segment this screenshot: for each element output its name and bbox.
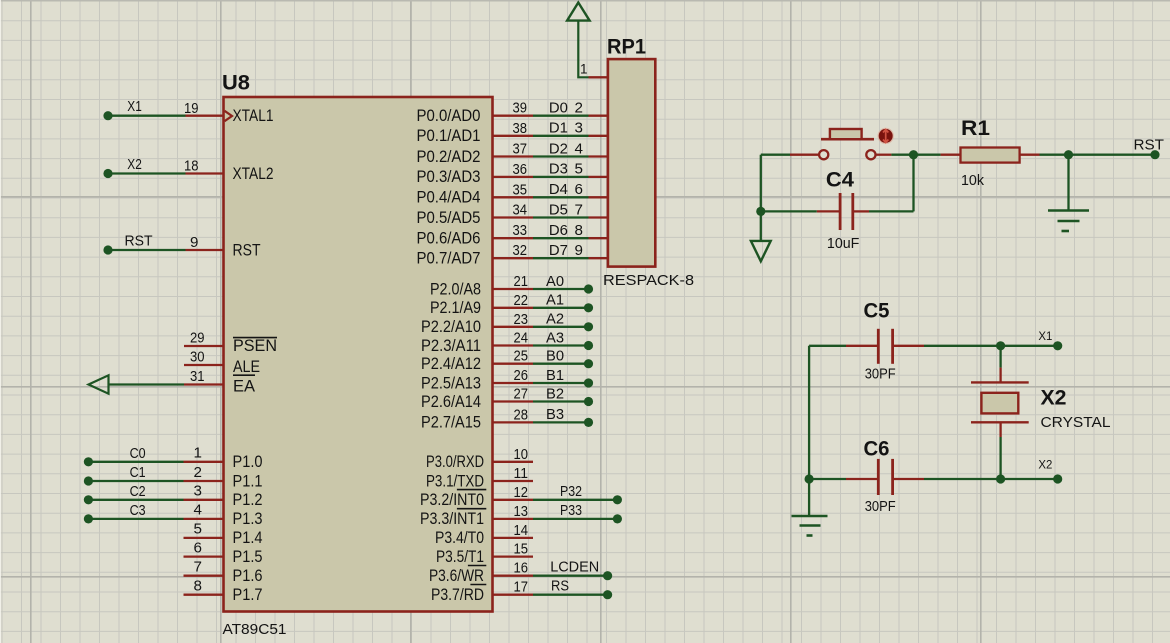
pin number 8: [194, 578, 202, 595]
svg-text:5: 5: [575, 161, 583, 178]
pin name P2.4/A12: [421, 355, 481, 373]
svg-text:5: 5: [194, 521, 202, 538]
resistor pack RP1 body: [608, 59, 655, 267]
pin number 9: [190, 234, 198, 251]
RP1 pin number 3: [575, 120, 583, 137]
capacitor C5 right pin stub: [894, 345, 924, 347]
net label D7: [549, 242, 568, 259]
pin name P2.0/A8: [430, 280, 481, 298]
svg-text:P0.3/AD3: P0.3/AD3: [417, 168, 481, 186]
wire net A0: [533, 288, 589, 290]
svg-text:9: 9: [190, 234, 198, 251]
power terminal arrow: [567, 3, 590, 21]
svg-text:38: 38: [513, 120, 528, 137]
capacitor C6 left pin stub: [846, 478, 877, 480]
pin 30 ALE stub: [184, 364, 224, 366]
svg-text:D0: D0: [549, 100, 568, 117]
node C1 dot: [84, 476, 93, 485]
svg-text:D5: D5: [549, 201, 568, 218]
pin number 22: [514, 292, 529, 309]
node C3 dot: [84, 514, 93, 523]
node X2 terminal dot: [1053, 474, 1062, 483]
svg-text:26: 26: [514, 367, 529, 384]
net label X1 crystal: [1038, 331, 1052, 343]
pin name P3.4/T0: [435, 529, 484, 547]
pin 18 XTAL2 stub: [186, 172, 224, 174]
net label D1: [549, 120, 568, 137]
wire net A3: [533, 344, 589, 346]
svg-text:B3: B3: [546, 406, 564, 423]
node A0 dot: [584, 284, 593, 293]
svg-text:A0: A0: [546, 273, 564, 290]
net label P33: [560, 502, 582, 519]
RP1 pin number 6: [575, 181, 583, 198]
IC U8 value label AT89C51: [223, 621, 287, 638]
net label C3: [130, 502, 146, 519]
net label A2: [546, 311, 564, 328]
svg-text:15: 15: [514, 541, 529, 558]
RP1 pin number 4: [575, 140, 583, 157]
pin number 39: [513, 100, 528, 117]
pin 29 PSEN stub: [184, 345, 224, 347]
node X1 dot: [103, 111, 112, 120]
node RST terminal dot: [1150, 150, 1159, 159]
svg-text:2: 2: [575, 100, 583, 117]
pin 36 P0.3/AD3 stub: [493, 176, 534, 178]
svg-text:P3.2/INT0: P3.2/INT0: [420, 491, 484, 509]
svg-text:P3.3/INT1: P3.3/INT1: [420, 510, 484, 528]
svg-text:C6: C6: [864, 438, 890, 461]
pin 34 P0.5/AD5 stub: [493, 216, 534, 218]
svg-text:RST: RST: [233, 241, 261, 259]
capacitor C5 plates: [878, 329, 892, 364]
node A3 dot: [584, 341, 593, 350]
svg-text:P3.4/T0: P3.4/T0: [435, 529, 484, 547]
wire net D0: [533, 115, 589, 117]
svg-text:18: 18: [184, 158, 199, 175]
pin number 16: [514, 560, 529, 577]
net label A0: [546, 273, 564, 290]
pin name P2.1/A9: [430, 299, 481, 317]
button right pin stub: [876, 154, 892, 156]
wire net D7: [533, 257, 589, 259]
svg-text:RST: RST: [1134, 136, 1165, 153]
pin name P1.6: [233, 567, 263, 585]
pin 4 P1.3 stub: [184, 518, 224, 520]
pin number 33: [513, 222, 528, 239]
wire net RST to pin 9: [108, 249, 186, 251]
svg-text:28: 28: [514, 406, 529, 423]
svg-text:19: 19: [184, 100, 199, 117]
svg-text:RESPACK-8: RESPACK-8: [603, 272, 694, 289]
svg-text:22: 22: [514, 292, 529, 309]
pin 14 P3.4/T0 stub: [493, 537, 534, 539]
svg-text:C2: C2: [130, 483, 146, 500]
pin 27 P2.6/A14 stub: [493, 400, 534, 402]
resistor pack RP1 pin 9 stub: [589, 257, 609, 259]
net label C1: [130, 464, 146, 481]
node RST dot: [103, 245, 112, 254]
pin 22 P2.1/A9 stub: [493, 307, 534, 309]
svg-text:CRYSTAL: CRYSTAL: [1041, 414, 1111, 431]
svg-text:B0: B0: [546, 348, 564, 365]
X2 reference label: [1041, 387, 1067, 410]
pin name P3.3/INT1: [420, 509, 486, 529]
pin number 29: [190, 330, 205, 347]
svg-text:P0.4/AD4: P0.4/AD4: [417, 189, 481, 207]
wire net D1: [533, 135, 589, 137]
pin number 34: [513, 202, 528, 219]
pin number 19: [184, 100, 199, 117]
svg-text:XTAL1: XTAL1: [233, 107, 274, 125]
wire reset net left vertical: [760, 155, 762, 241]
wire net RS: [533, 594, 608, 596]
pin 35 P0.4/AD4 stub: [493, 196, 534, 198]
resistor pack RP1 pin 7 stub: [589, 216, 609, 218]
net label B2: [546, 385, 564, 402]
pin name ALE: [233, 358, 260, 376]
svg-text:RP1: RP1: [607, 36, 646, 59]
net label RST: [125, 232, 153, 249]
pin 13 P3.3/INT1 stub: [493, 518, 534, 520]
svg-text:1: 1: [194, 445, 202, 462]
wire trunk to C6: [809, 478, 846, 480]
RP1 pin number 2: [575, 100, 583, 117]
svg-text:P1.2: P1.2: [233, 491, 263, 509]
svg-text:P1.6: P1.6: [233, 567, 263, 585]
pin 37 P0.2/AD2 stub: [493, 155, 534, 157]
svg-text:P2.3/A11: P2.3/A11: [421, 337, 481, 355]
pin name P1.0: [233, 453, 263, 471]
pin number 12: [514, 484, 529, 501]
svg-text:36: 36: [513, 161, 528, 178]
button actuator: [879, 129, 893, 143]
wire net C0 to P1.0: [88, 461, 183, 463]
svg-text:7: 7: [194, 559, 202, 576]
pin name P1.7: [233, 586, 263, 604]
pin number 5: [194, 521, 202, 538]
node B1 dot: [584, 378, 593, 387]
svg-text:35: 35: [513, 181, 528, 198]
pin 33 P0.6/AD6 stub: [493, 237, 534, 239]
net label A3: [546, 329, 564, 346]
pin name RST: [233, 241, 261, 259]
junction dot X2 node: [996, 474, 1005, 483]
svg-text:RST: RST: [125, 232, 153, 249]
pin 16 P3.6/WR stub: [493, 575, 534, 577]
node B0 dot: [584, 359, 593, 368]
RP1 pin 1 stub: [589, 76, 609, 78]
pin number 4: [194, 502, 202, 519]
RP1 pin number 1: [580, 62, 588, 77]
svg-text:34: 34: [513, 202, 528, 219]
pin name P0.2/AD2: [417, 148, 481, 166]
net label D6: [549, 222, 568, 239]
RP1 pin number 5: [575, 161, 583, 178]
svg-text:8: 8: [575, 222, 583, 239]
svg-text:12: 12: [514, 484, 529, 501]
pin number 21: [514, 273, 529, 290]
svg-text:C1: C1: [130, 464, 146, 481]
wire net D6: [533, 237, 589, 239]
svg-text:10: 10: [514, 446, 529, 463]
wire C4 row left: [761, 210, 817, 212]
R1 reference label: [961, 117, 990, 140]
pin name P2.2/A10: [421, 318, 481, 336]
pin name P1.5: [233, 548, 263, 566]
pin number 7: [194, 559, 202, 576]
svg-text:D6: D6: [549, 222, 568, 239]
push button cap: [830, 129, 862, 139]
svg-text:P0.7/AD7: P0.7/AD7: [417, 250, 481, 268]
wire from EA input terminal: [108, 383, 184, 385]
wire net P32: [533, 499, 617, 501]
wire net D2: [533, 155, 589, 157]
pin 26 P2.5/A13 stub: [493, 382, 534, 384]
wire net A2: [533, 326, 589, 328]
wire net A1: [533, 307, 589, 309]
pin name P0.0/AD0: [417, 107, 481, 125]
capacitor C6 right pin stub: [894, 478, 924, 480]
wire net C3 to P1.3: [88, 518, 183, 520]
X2 value label CRYSTAL: [1041, 414, 1111, 431]
pin name P3.1/TXD: [426, 472, 484, 490]
pin name P0.5/AD5: [417, 209, 481, 227]
svg-text:XTAL2: XTAL2: [233, 165, 274, 183]
pin name P1.2: [233, 491, 263, 509]
pin number 31: [190, 368, 205, 385]
button actuator glow: [878, 128, 894, 144]
svg-text:P2.0/A8: P2.0/A8: [430, 280, 481, 298]
svg-text:P2.1/A9: P2.1/A9: [430, 299, 481, 317]
wire net C1 to P1.1: [88, 480, 183, 482]
C4 reference label: [826, 169, 854, 192]
svg-text:13: 13: [514, 503, 529, 520]
wire net B1: [533, 382, 589, 384]
pin 2 P1.1 stub: [184, 480, 224, 482]
node C2 dot: [84, 495, 93, 504]
node C0 dot: [84, 457, 93, 466]
svg-text:B1: B1: [546, 367, 564, 384]
crystal X2 top pin: [999, 368, 1001, 383]
R1 value label 10k: [961, 172, 984, 189]
node A2 dot: [584, 322, 593, 331]
svg-text:P2.6/A14: P2.6/A14: [421, 393, 481, 411]
net label C0: [130, 445, 146, 462]
svg-text:4: 4: [575, 140, 583, 157]
resistor R1 right pin stub: [1020, 154, 1040, 156]
C4 value label 10uF: [827, 235, 860, 252]
resistor pack RP1 pin 6 stub: [589, 196, 609, 198]
pin name XTAL1: [233, 107, 274, 125]
power-down terminal arrow: [751, 241, 771, 261]
svg-text:3: 3: [575, 120, 583, 137]
wire net P33: [533, 518, 617, 520]
pin 10 P3.0/RXD stub: [493, 461, 534, 463]
pin 19 XTAL1 stub: [186, 115, 224, 117]
svg-text:D3: D3: [549, 161, 568, 178]
wire net D3: [533, 176, 589, 178]
net label D0: [549, 100, 568, 117]
svg-text:30PF: 30PF: [865, 498, 896, 515]
pin number 35: [513, 181, 528, 198]
svg-text:P1.0: P1.0: [233, 453, 263, 471]
svg-text:11: 11: [514, 465, 529, 482]
svg-text:PSEN: PSEN: [233, 337, 277, 355]
pin number 38: [513, 120, 528, 137]
pin 21 P2.0/A8 stub: [493, 288, 534, 290]
pin 5 P1.4 stub: [184, 537, 224, 539]
svg-text:31: 31: [190, 368, 205, 385]
input terminal arrow at EA: [89, 375, 109, 393]
svg-text:R1: R1: [961, 117, 990, 140]
svg-text:P3.1/TXD: P3.1/TXD: [426, 472, 484, 490]
wire net B2: [533, 400, 589, 402]
ground symbol reset: [1048, 211, 1089, 232]
node X2 dot: [103, 169, 112, 178]
pin name P0.1/AD1: [417, 127, 481, 145]
svg-text:C5: C5: [864, 300, 890, 323]
pin number 14: [514, 522, 529, 539]
svg-text:27: 27: [514, 386, 529, 403]
svg-text:D4: D4: [549, 181, 568, 198]
pin number 37: [513, 141, 528, 158]
svg-text:P2.4/A12: P2.4/A12: [421, 355, 481, 373]
resistor pack RP1 pin 8 stub: [589, 237, 609, 239]
IC U8 reference label: [222, 72, 250, 95]
wire net LCDEN: [533, 575, 608, 577]
pin number 25: [514, 348, 529, 365]
svg-text:P0.6/AD6: P0.6/AD6: [417, 230, 481, 248]
crystal X2 top plate: [971, 381, 1029, 383]
svg-text:C0: C0: [130, 445, 146, 462]
svg-text:16: 16: [514, 560, 529, 577]
wire net D5: [533, 216, 589, 218]
net label D4: [549, 181, 568, 198]
pin number 1: [194, 445, 202, 462]
pin 38 P0.1/AD1 stub: [493, 135, 534, 137]
RP1 pin number 8: [575, 222, 583, 239]
pin number 30: [190, 349, 205, 366]
clock input chevron XTAL1: [225, 111, 233, 121]
svg-text:33: 33: [513, 222, 528, 239]
net label B0: [546, 348, 564, 365]
node LCDEN dot: [603, 571, 612, 580]
net label D3: [549, 161, 568, 178]
svg-text:C3: C3: [130, 502, 146, 519]
svg-text:9: 9: [575, 242, 583, 259]
RP1 reference label: [607, 36, 646, 59]
wire net B3: [533, 421, 589, 423]
pin name XTAL2: [233, 165, 274, 183]
pin name P0.7/AD7: [417, 250, 481, 268]
svg-text:8: 8: [194, 578, 202, 595]
wire net B0: [533, 363, 589, 365]
wire crystal to X2 node: [999, 437, 1001, 479]
junction dot X1: [996, 341, 1005, 350]
wire riser to main: [912, 155, 914, 212]
pin name P1.1: [233, 472, 263, 490]
pin number 11: [514, 465, 529, 482]
pin 9 RST stub: [186, 249, 224, 251]
net label X2: [127, 156, 142, 173]
wire X1 node down: [999, 346, 1001, 368]
pin name PSEN with overline: [233, 337, 277, 355]
svg-text:32: 32: [513, 242, 528, 259]
wire net D4: [533, 196, 589, 198]
node B3 dot: [584, 418, 593, 427]
svg-text:21: 21: [514, 273, 529, 290]
svg-text:14: 14: [514, 522, 529, 539]
pin 28 P2.7/A15 stub: [493, 421, 534, 423]
net label D2: [549, 140, 568, 157]
svg-text:29: 29: [190, 330, 205, 347]
RP1 value label RESPACK-8: [603, 272, 694, 289]
resistor pack RP1 pin 4 stub: [589, 155, 609, 157]
push button right contact: [866, 150, 875, 159]
pin name P3.0/RXD: [426, 453, 484, 471]
pin number 17: [514, 579, 529, 596]
capacitor C5 left pin stub: [846, 345, 877, 347]
svg-text:AT89C51: AT89C51: [223, 621, 287, 638]
wire power to RP1 pin 1: [578, 21, 588, 78]
svg-text:25: 25: [514, 348, 529, 365]
pin 24 P2.3/A11 stub: [493, 344, 534, 346]
junction dot left trunk: [756, 207, 765, 216]
svg-text:P0.2/AD2: P0.2/AD2: [417, 148, 481, 166]
C6 value label 30PF bottom: [865, 498, 896, 515]
pin 7 P1.6 stub: [184, 575, 224, 577]
pin name P0.6/AD6: [417, 230, 481, 248]
svg-text:37: 37: [513, 141, 528, 158]
svg-text:RS: RS: [551, 578, 569, 595]
capacitor C4 left pin stub: [817, 210, 839, 212]
pin name P1.4: [233, 529, 263, 547]
svg-text:P2.2/A10: P2.2/A10: [421, 318, 481, 336]
wire X1 node to terminal: [1001, 345, 1058, 347]
svg-text:10uF: 10uF: [827, 235, 860, 252]
svg-text:P33: P33: [560, 502, 582, 519]
wire R1 to RST terminal: [1040, 154, 1156, 156]
resistor pack RP1 pin 5 stub: [589, 176, 609, 178]
pin number 13: [514, 503, 529, 520]
pin name P1.3: [233, 510, 263, 528]
svg-text:P3.6/WR: P3.6/WR: [429, 567, 484, 585]
pin name P2.7/A15: [421, 414, 481, 432]
push button bar: [821, 138, 874, 141]
net label RST right: [1134, 136, 1165, 153]
net label B1: [546, 367, 564, 384]
wire C4 to riser: [869, 210, 914, 212]
node B2 dot: [584, 397, 593, 406]
wire net C2 to P1.2: [88, 499, 183, 501]
svg-text:A3: A3: [546, 329, 564, 346]
pin number 10: [514, 446, 529, 463]
pin name P0.3/AD3: [417, 168, 481, 186]
node RS dot: [603, 590, 612, 599]
svg-text:23: 23: [514, 311, 529, 328]
svg-text:2: 2: [194, 464, 202, 481]
svg-text:P1.5: P1.5: [233, 548, 263, 566]
svg-text:ALE: ALE: [233, 358, 260, 376]
net label P32: [560, 483, 582, 500]
svg-text:D7: D7: [549, 242, 568, 259]
pin 32 P0.7/AD7 stub: [493, 257, 534, 259]
svg-text:P1.4: P1.4: [233, 529, 263, 547]
button left pin stub: [790, 154, 819, 156]
svg-text:P3.7/RD: P3.7/RD: [431, 586, 484, 604]
pin number 32: [513, 242, 528, 259]
